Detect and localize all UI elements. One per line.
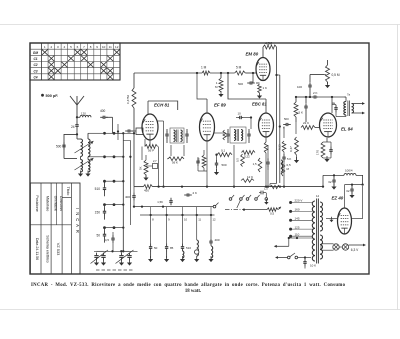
svg-text:400: 400 — [100, 109, 106, 113]
wire antenna drop — [112, 117, 114, 133]
capacitor 100 — [297, 82, 312, 90]
capacitor 32 a — [328, 174, 336, 189]
grid cap box ech — [136, 128, 143, 135]
bypass cap 50 — [148, 215, 158, 262]
svg-text:12: 12 — [213, 218, 217, 222]
capacitor IF2 right — [247, 129, 250, 143]
svg-text:2 K: 2 K — [193, 191, 198, 195]
svg-text:11: 11 — [198, 218, 201, 222]
wire ech osc — [158, 121, 165, 188]
capacitor 500 ef — [214, 155, 227, 175]
svg-text:100: 100 — [297, 85, 302, 89]
wire ebc bottom — [264, 137, 267, 187]
capacitor 500 left — [56, 142, 66, 150]
resistor 22K — [301, 121, 320, 130]
speaker terminal top — [352, 102, 366, 105]
svg-text:500: 500 — [56, 145, 62, 149]
node coil top — [76, 133, 78, 135]
wire mains arrow — [274, 237, 298, 248]
resistor rail A inline — [270, 184, 281, 189]
wire bus97 — [296, 96, 344, 98]
mains switch — [275, 253, 311, 259]
title block — [30, 183, 80, 274]
svg-text:50: 50 — [96, 234, 100, 238]
svg-text:Costruttivo: Costruttivo — [59, 196, 63, 211]
label ECH 81 — [154, 103, 170, 108]
wire vertical bus x123 — [122, 133, 124, 252]
pin row — [140, 214, 215, 216]
svg-text:12 K: 12 K — [247, 175, 253, 179]
coil L2 primary — [81, 157, 83, 173]
wire ez40 top — [344, 185, 346, 208]
node bus b — [227, 72, 229, 74]
pilot lamp 2 — [342, 244, 348, 250]
svg-text:12: 12 — [115, 45, 119, 49]
svg-text:Posizione: Posizione — [35, 195, 39, 211]
svg-text:22 K: 22 K — [303, 121, 309, 125]
svg-text:110: 110 — [295, 232, 300, 236]
wire ef bottom — [206, 141, 208, 187]
svg-text:Titolo: Titolo — [66, 187, 70, 196]
svg-text:220 V: 220 V — [295, 199, 303, 203]
bypass cap 85 — [164, 215, 174, 262]
svg-text:32: 32 — [346, 189, 350, 193]
svg-text:0,22: 0,22 — [278, 144, 282, 150]
svg-text:10: 10 — [102, 45, 106, 49]
svg-text:4,5M: 4,5M — [265, 42, 272, 46]
pilot lamp 1 — [333, 244, 339, 250]
trimmer C2 group — [116, 250, 134, 266]
svg-text:1,5K: 1,5K — [157, 200, 163, 204]
capacitor mid a — [266, 158, 269, 170]
svg-text:100/4: 100/4 — [345, 169, 353, 173]
svg-text:5 K: 5 K — [287, 157, 291, 161]
legend 500pF — [41, 94, 58, 98]
svg-text:510: 510 — [186, 246, 191, 250]
label 10 — [238, 112, 242, 116]
capacitor 500 EM80 — [238, 72, 255, 86]
svg-text:EBC 81: EBC 81 — [252, 102, 267, 107]
svg-text:2,7: 2,7 — [153, 159, 157, 163]
ground 0,5M — [325, 82, 330, 88]
capacitor 400 center — [125, 187, 136, 207]
svg-text:5 M: 5 M — [236, 66, 242, 70]
capacitor IF1 right — [185, 129, 188, 143]
wire x134 to antenna line — [133, 108, 135, 187]
label EBC 81 — [252, 102, 267, 107]
ground L2a — [78, 171, 83, 177]
svg-text:6,3 V: 6,3 V — [351, 248, 359, 252]
tube EM80 — [256, 58, 270, 81]
label EL 84 — [341, 127, 353, 132]
capacitor switch — [259, 187, 268, 195]
svg-text:INCAR - Mod. VZ-533. Ricevitor: INCAR - Mod. VZ-533. Ricevitore a onde m… — [31, 283, 346, 288]
wire x310 down — [309, 75, 311, 83]
svg-text:0,47: 0,47 — [289, 146, 293, 152]
svg-text:VZ 533: VZ 533 — [56, 243, 61, 256]
capacitor el84 cathode — [323, 142, 333, 158]
label 14 — [316, 194, 320, 198]
band switch contacts y204.6 — [95, 203, 125, 219]
wire mains right — [297, 237, 313, 239]
svg-text:1,5: 1,5 — [264, 187, 268, 191]
resistor ef cathode — [197, 150, 208, 171]
resistor 0,22 avc — [278, 141, 286, 152]
svg-text:500: 500 — [222, 163, 227, 167]
wire bus B+ — [134, 185, 302, 193]
coil L1 primary — [77, 139, 83, 157]
page top edge — [0, 24, 400, 26]
border frame — [30, 43, 369, 274]
band switch contacts y133.3 — [103, 132, 124, 135]
wire cap mid to bus — [267, 145, 269, 188]
svg-text:150: 150 — [95, 211, 101, 215]
ground L2b — [85, 171, 90, 177]
wire avc rail 2b — [283, 163, 285, 187]
caption line 2 — [185, 289, 201, 294]
resistor 1M top — [201, 66, 210, 76]
tube EZ40 — [338, 208, 352, 234]
svg-text:170: 170 — [316, 150, 320, 155]
wire top bus — [134, 72, 257, 74]
capacitor ef cathode — [196, 157, 199, 171]
trim arrow L1 — [75, 141, 94, 153]
resistor 12K — [241, 175, 254, 182]
page bottom edge — [0, 309, 400, 311]
wire x228 down — [228, 73, 232, 99]
page right edge — [397, 25, 399, 310]
svg-text:4,5: 4,5 — [105, 238, 110, 242]
node b2 — [181, 185, 183, 187]
trimmer C1 group — [91, 250, 109, 266]
node bus a — [220, 72, 222, 74]
label EF 89 — [214, 102, 226, 107]
capacitor grid ebc — [236, 116, 252, 129]
svg-text:0,22: 0,22 — [244, 155, 250, 159]
svg-text:1 M: 1 M — [201, 66, 207, 70]
capacitor 4,5 series — [105, 232, 115, 251]
svg-text:50: 50 — [154, 246, 158, 250]
capacitor IF1 left — [165, 129, 168, 143]
resistor 0,5M ebc — [281, 161, 291, 176]
resistor 1M volume — [294, 97, 298, 122]
svg-text:145: 145 — [295, 217, 300, 221]
wire ht riser — [302, 175, 344, 187]
bypass cap 510 — [180, 215, 191, 262]
wave band switch contacts — [229, 195, 259, 200]
output transformer secondary — [352, 104, 354, 114]
svg-text:EL 84: EL 84 — [341, 127, 353, 132]
wire ef top — [196, 72, 207, 113]
svg-text:56 K: 56 K — [172, 161, 178, 165]
svg-text:0,5: 0,5 — [270, 212, 275, 216]
svg-text:85: 85 — [170, 246, 174, 250]
wire ech top loop — [148, 101, 178, 115]
wire ez40 right — [352, 183, 364, 218]
resistor 0,5M — [324, 65, 340, 82]
resistor osc grid — [139, 155, 149, 181]
capacitor IF2 left — [214, 129, 230, 143]
svg-text:18 watt.: 18 watt. — [185, 289, 201, 294]
node antenna junction — [76, 116, 78, 118]
pin dots — [149, 207, 216, 222]
svg-text:400: 400 — [125, 195, 130, 199]
band switch table — [30, 43, 120, 80]
wire el84 cath gnd — [323, 156, 331, 162]
coil lamp — [194, 215, 199, 262]
capacitor 24 antenna — [71, 117, 79, 139]
switch lever diagonal — [237, 201, 241, 209]
capacitor 1,5K — [157, 198, 172, 206]
resistor 1M vertical — [215, 73, 223, 92]
capacitor 5K tone — [298, 97, 307, 122]
svg-text:5K: 5K — [139, 166, 143, 170]
label EZ 40 — [332, 196, 344, 201]
resistor 0,22 — [242, 151, 256, 159]
capacitor 2K mid — [184, 191, 197, 197]
speaker terminal bottom — [352, 112, 366, 115]
svg-text:120: 120 — [81, 112, 86, 116]
svg-text:C3: C3 — [33, 69, 37, 73]
coil L2 secondary — [88, 157, 103, 172]
svg-text:450: 450 — [144, 189, 149, 193]
wire vertical bus x130 — [123, 140, 131, 225]
node b4 — [265, 185, 267, 187]
IF transformer 2 — [230, 127, 246, 143]
band switch contacts y156.8 — [103, 155, 124, 158]
wire x134 top — [133, 73, 135, 88]
svg-text:C2: C2 — [33, 63, 37, 67]
potentiometer 0,5 — [243, 207, 281, 216]
svg-text:14: 14 — [316, 194, 320, 198]
svg-text:2 K: 2 K — [313, 91, 318, 95]
svg-text:Schema elettrico: Schema elettrico — [46, 235, 50, 262]
svg-text:GM: GM — [33, 51, 38, 55]
wire x310 to bus — [309, 90, 311, 98]
wire ebc top — [232, 99, 266, 113]
band switch contacts y181.2 — [95, 180, 125, 196]
tube EBC81 — [259, 113, 274, 137]
svg-text:500 pF.: 500 pF. — [46, 94, 59, 98]
switch linkage dash-dot — [225, 209, 244, 211]
node bus97 c — [309, 96, 311, 98]
svg-text:32: 32 — [328, 180, 332, 184]
resistor 170 cathode — [316, 142, 325, 158]
svg-text:160: 160 — [295, 208, 300, 212]
capacitor 32 b — [346, 183, 354, 198]
wire row1 extension — [114, 132, 135, 134]
resistor ech cathode — [145, 139, 158, 153]
wire choke right — [345, 175, 363, 184]
contact 5 — [264, 193, 268, 205]
capacitor 10K mains — [303, 258, 316, 269]
wire avc rail 2 — [283, 127, 285, 188]
svg-text:Data 24.11.56: Data 24.11.56 — [35, 238, 39, 260]
svg-text:EF 89: EF 89 — [214, 102, 226, 107]
capacitor osc — [146, 159, 158, 169]
wire el84 plate riser — [331, 96, 333, 113]
capacitor 400 antenna — [100, 109, 113, 119]
contact bus2 end — [213, 203, 218, 208]
svg-text:10 K: 10 K — [310, 264, 316, 268]
label EM 80 — [246, 52, 259, 57]
svg-text:1,5: 1,5 — [253, 162, 257, 166]
wire ez40 plates — [326, 217, 338, 222]
resistor 5M top — [235, 66, 246, 76]
coil mid — [281, 160, 283, 172]
power transformer — [312, 199, 322, 264]
antenna — [70, 96, 84, 117]
coil 400 bottom — [208, 215, 219, 262]
node bus97 a — [295, 96, 297, 98]
svg-text:500: 500 — [284, 117, 289, 121]
svg-text:510: 510 — [95, 187, 101, 191]
wire bus2 — [133, 205, 213, 207]
trimmer tie wire — [94, 250, 138, 252]
capacitor 5K avc — [282, 152, 291, 163]
svg-text:500: 500 — [238, 82, 243, 86]
svg-text:400: 400 — [215, 238, 220, 242]
wire lamps — [321, 244, 366, 251]
wire res top — [327, 60, 329, 84]
resistor 0,1 ef — [215, 149, 232, 157]
caption line 1 — [31, 283, 346, 288]
wire plate rail A — [275, 47, 277, 184]
svg-text:10: 10 — [184, 218, 188, 222]
node b3 — [206, 185, 208, 187]
ground EM80 cathode — [257, 93, 262, 99]
svg-text:EM 80: EM 80 — [246, 52, 259, 57]
svg-text:24: 24 — [71, 125, 75, 129]
svg-text:C1: C1 — [33, 57, 37, 61]
capacitor 2K coupling — [311, 91, 319, 99]
wire IF2 to bus — [233, 145, 235, 188]
tube EL84 — [320, 113, 337, 137]
wire IF1 left down — [171, 145, 184, 156]
wire left drop — [64, 134, 77, 158]
svg-text:ECH 81: ECH 81 — [154, 103, 170, 108]
node bus97 b — [305, 96, 307, 98]
svg-text:C4: C4 — [33, 76, 37, 80]
svg-text:5 K: 5 K — [298, 111, 303, 115]
resistor 0,22 vert — [236, 154, 245, 167]
coil L1 secondary — [88, 133, 103, 156]
IF transformer 1 — [170, 128, 184, 143]
label 9a — [332, 101, 336, 105]
svg-text:0,5: 0,5 — [236, 158, 240, 162]
ground below 1M — [218, 91, 223, 97]
coil antenna series — [77, 112, 91, 118]
svg-text:125: 125 — [295, 225, 300, 229]
wire el84 bottom — [326, 138, 328, 142]
tube EF89 — [200, 113, 215, 141]
capacitor el84 anode — [332, 105, 346, 117]
tuning gang dashed link — [96, 269, 133, 271]
filter choke — [344, 169, 356, 176]
wire avc — [310, 74, 324, 76]
svg-text:56 P: 56 P — [148, 149, 154, 153]
capacitor ech grid — [117, 124, 136, 140]
wire plate rail B — [277, 75, 281, 183]
node b1 — [157, 185, 159, 187]
svg-text:0,5 M: 0,5 M — [332, 73, 340, 77]
wire ech down — [142, 147, 159, 187]
capacitor grid el84 — [283, 117, 291, 130]
output transformer primary — [344, 93, 351, 116]
svg-text:11: 11 — [109, 45, 112, 49]
trim arrow L2 — [75, 158, 94, 170]
resistor 4,5M EM80 anode — [263, 42, 277, 58]
svg-text:Materiale: Materiale — [46, 196, 50, 212]
band switch contacts y227.6 — [96, 226, 124, 242]
tube ECH81 — [142, 114, 158, 140]
svg-text:0,47M: 0,47M — [126, 95, 130, 104]
svg-text:7a: 7a — [347, 93, 351, 97]
resistor 1,5K vert — [253, 158, 262, 172]
svg-text:EZ 40: EZ 40 — [332, 196, 344, 201]
svg-text:Orientabile: Orientabile — [53, 196, 57, 212]
svg-text:220: 220 — [197, 158, 201, 163]
label 6,3V — [351, 248, 359, 252]
svg-text:0,1: 0,1 — [221, 149, 226, 153]
svg-text:INCAR: INCAR — [75, 208, 80, 236]
svg-text:1 K: 1 K — [263, 86, 268, 90]
output transformer core — [348, 101, 350, 117]
resistor 0,47 el84 — [289, 122, 299, 163]
wire bus97 right corner — [344, 96, 346, 98]
resistor 1K EM80 cathode — [256, 83, 267, 93]
resistor IF1 return — [167, 157, 184, 165]
mains voltage selector — [289, 199, 312, 238]
svg-text:10: 10 — [238, 112, 242, 116]
resistor 0,47M grid — [126, 88, 136, 108]
